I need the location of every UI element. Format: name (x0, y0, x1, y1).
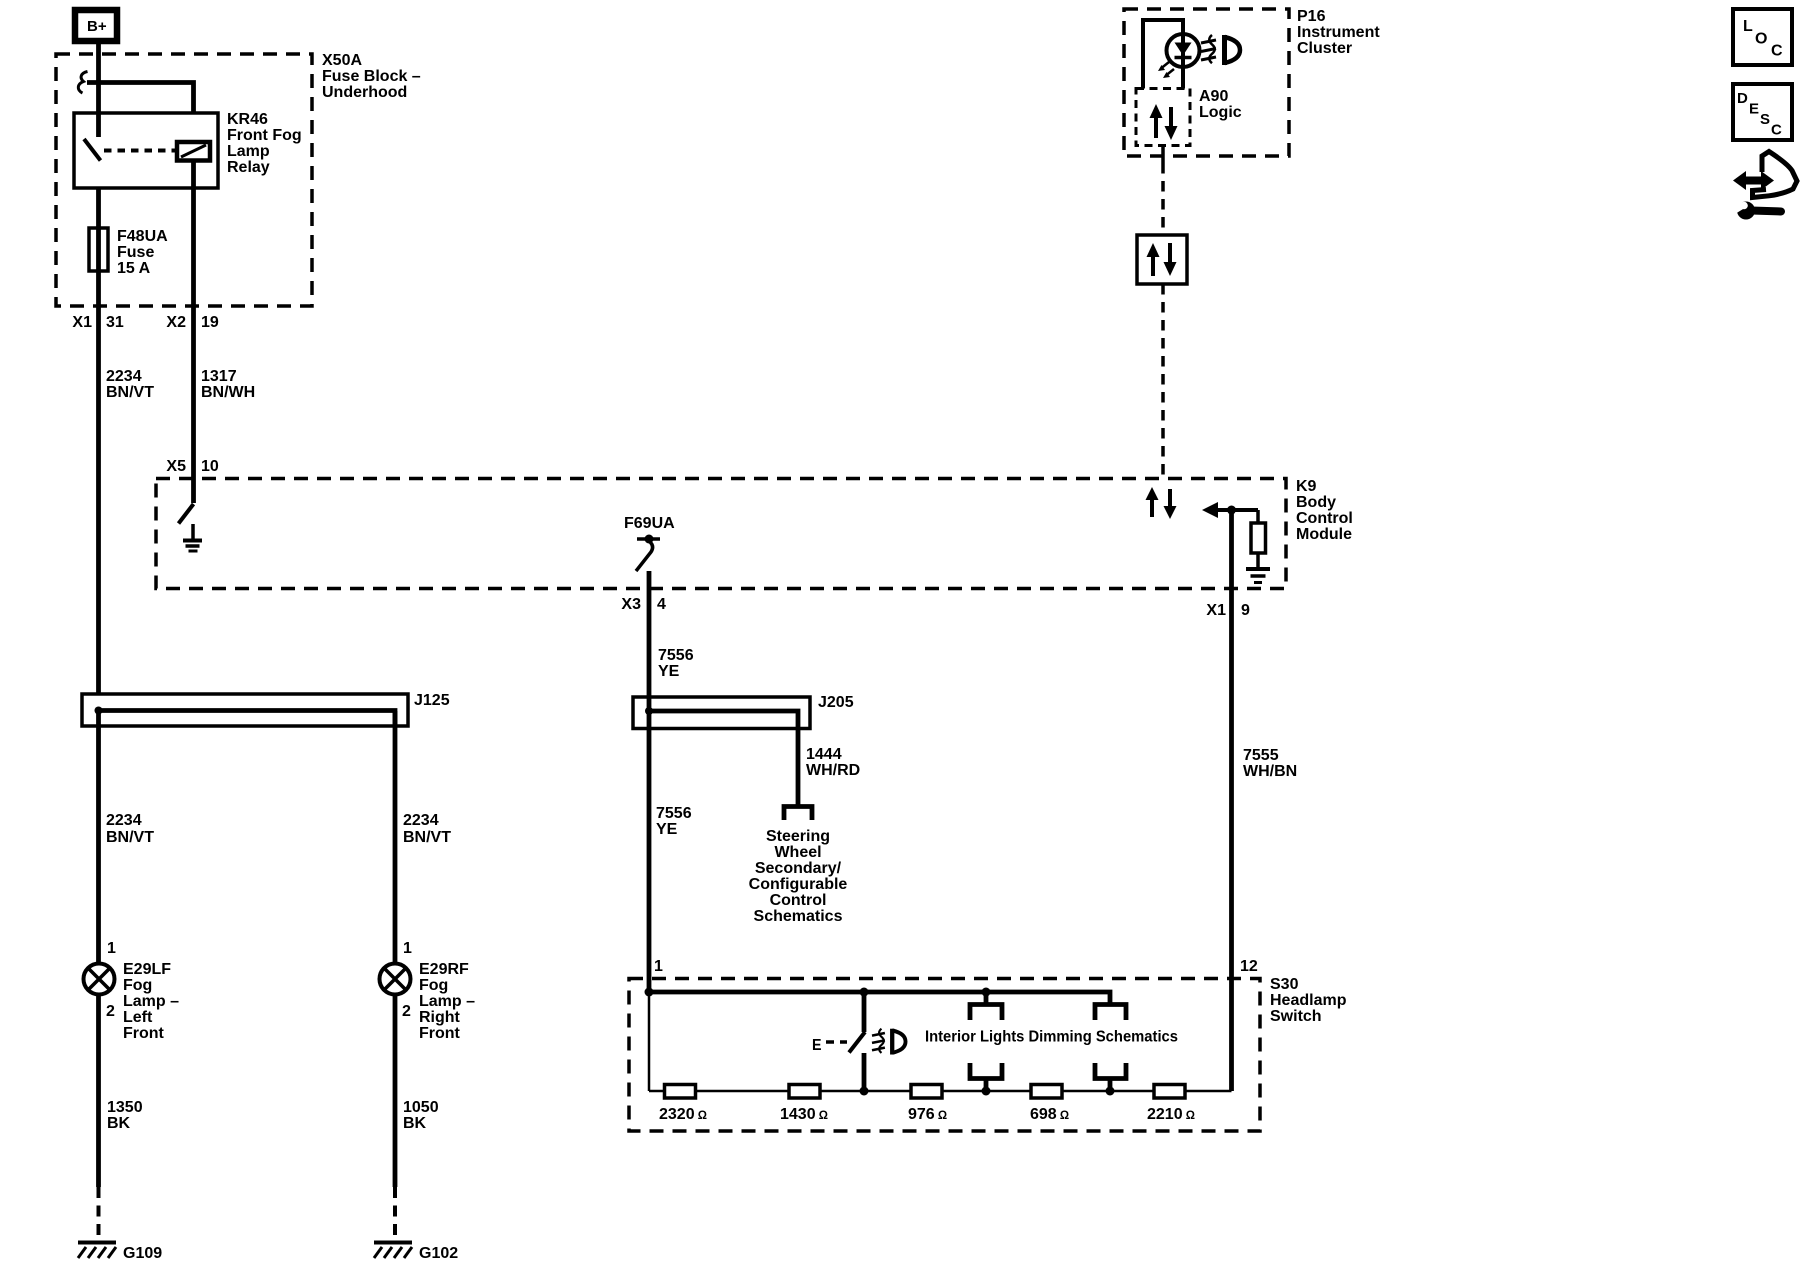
svg-text:Control: Control (770, 892, 827, 909)
wire label 1350 BK (107, 1099, 143, 1132)
wire label 1444 WH/RD (806, 746, 860, 779)
serial data gateway box (1137, 235, 1187, 284)
svg-text:Interior Lights Dimming Schema: Interior Lights Dimming Schematics (925, 1029, 1178, 1046)
svg-text:19: 19 (201, 314, 219, 331)
svg-text:Lamp –: Lamp – (123, 993, 179, 1010)
fog lamp switch stem (862, 992, 867, 1032)
svg-text:J125: J125 (414, 692, 450, 709)
label X50A Fuse Block Underhood (322, 52, 421, 101)
svg-text:1350: 1350 (107, 1099, 143, 1116)
svg-text:O: O (1755, 31, 1767, 48)
svg-text:Left: Left (123, 1009, 153, 1026)
svg-text:F48UA: F48UA (117, 228, 168, 245)
svg-text:S30: S30 (1270, 976, 1299, 993)
svg-text:BN/WH: BN/WH (201, 384, 255, 401)
svg-text:2234: 2234 (106, 368, 142, 385)
wire 1050 BK right lamp to ground (393, 994, 398, 1187)
pin label X3 4 (621, 596, 666, 613)
relay KR46 box (74, 113, 218, 188)
BCM input arrow from X1 9 (1202, 502, 1258, 518)
wire B+ down to relay switch (96, 44, 101, 137)
logic block A90 dashed box (1136, 89, 1190, 146)
svg-text:G109: G109 (123, 1245, 162, 1262)
svg-text:1: 1 (107, 940, 116, 957)
svg-text:15 A: 15 A (117, 260, 151, 277)
BCM internal ground right (1246, 569, 1270, 583)
svg-text:Underhood: Underhood (322, 84, 407, 101)
svg-text:2: 2 (402, 1003, 411, 1020)
wire 7555 WH/BN from X1 9 down to S30 pin 12 (1229, 510, 1234, 1091)
junction node at X1 9 (1227, 506, 1236, 515)
fuse F69UA symbol (624, 515, 675, 571)
label P16 Instrument Cluster (1297, 8, 1380, 57)
svg-text:BN/VT: BN/VT (106, 384, 154, 401)
wire label 7556 YE lower (656, 805, 692, 838)
svg-text:7556: 7556 (658, 647, 694, 664)
svg-text:D: D (1737, 90, 1748, 107)
svg-text:2234: 2234 (106, 812, 142, 829)
dashed link E to blade (826, 1040, 847, 1044)
svg-text:Lamp –: Lamp – (419, 993, 475, 1010)
svg-text:K9: K9 (1296, 478, 1317, 495)
off-page fork upper A (970, 988, 1002, 1021)
wire J125 to left fog lamp (96, 710, 101, 964)
wire 7556 YE from F69UA down to S30 pin 1 (647, 571, 652, 992)
svg-text:Schematics: Schematics (754, 908, 843, 925)
nav icon outline arrow (1753, 152, 1798, 198)
label KR46 Front Fog Lamp Relay (227, 111, 302, 176)
svg-text:S: S (1760, 111, 1770, 128)
svg-text:2: 2 (106, 1003, 115, 1020)
off-page connector fork to steering wheel schematics (784, 807, 812, 821)
label E29RF Fog Lamp Right Front (419, 961, 475, 1042)
wire label 7556 YE upper (658, 647, 694, 680)
svg-text:1050: 1050 (403, 1099, 439, 1116)
svg-text:Module: Module (1296, 526, 1352, 543)
svg-text:1317: 1317 (201, 368, 237, 385)
headlamp switch S30 dashed box (629, 979, 1260, 1132)
svg-text:Secondary/: Secondary/ (755, 860, 842, 877)
off-page fork lower B (1095, 1063, 1126, 1096)
wire relay coil down to X2 pin 19 (191, 160, 196, 503)
svg-text:E: E (1749, 101, 1759, 118)
svg-text:7556: 7556 (656, 805, 692, 822)
svg-text:J205: J205 (818, 694, 854, 711)
resistor 976 ohm (908, 1085, 947, 1124)
svg-text:Front: Front (419, 1025, 461, 1042)
nav icon wrench (1732, 196, 1781, 220)
off-page fork upper B (1095, 1005, 1126, 1021)
svg-text:A90: A90 (1199, 88, 1228, 105)
splice pack J205 (633, 697, 810, 729)
relay actuation dashed link (104, 149, 176, 153)
fog lamp switch blade (849, 1032, 865, 1053)
pin label X1 31 (72, 314, 123, 331)
svg-text:C: C (1771, 43, 1783, 60)
svg-text:Steering: Steering (766, 828, 830, 845)
relay switch blade (84, 139, 101, 161)
svg-text:Control: Control (1296, 510, 1353, 527)
pin label X5 10 (166, 458, 218, 475)
resistor 2320 ohm (659, 1085, 707, 1124)
wire A90 to serial data link (1161, 146, 1165, 164)
svg-text:4: 4 (657, 596, 666, 613)
svg-text:B+: B+ (87, 18, 107, 35)
svg-text:X1: X1 (72, 314, 92, 331)
S30 left return wire (648, 992, 651, 1091)
fog lamp icon S30 (872, 1029, 906, 1055)
body control module K9 dashed box (156, 479, 1286, 589)
svg-text:1: 1 (403, 940, 412, 957)
resistor 1430 ohm (780, 1085, 828, 1124)
svg-text:Relay: Relay (227, 159, 270, 176)
svg-text:WH/BN: WH/BN (1243, 763, 1297, 780)
svg-text:X1: X1 (1206, 602, 1226, 619)
battery feed B+ (75, 10, 117, 41)
svg-text:Configurable: Configurable (749, 876, 848, 893)
wire label 7555 WH/BN (1243, 747, 1297, 780)
svg-text:12: 12 (1240, 958, 1258, 975)
svg-text:YE: YE (658, 663, 680, 680)
BCM internal pull resistor (1251, 510, 1266, 567)
BCM internal switch blade at X5 (179, 504, 194, 524)
svg-text:E: E (812, 1037, 822, 1054)
connector clip symbol on B+ feed (78, 72, 87, 94)
fog lamp icon P16 (1201, 35, 1240, 65)
svg-text:E29LF: E29LF (123, 961, 171, 978)
resistor 2210 ohm (1147, 1085, 1195, 1124)
dashed serial data wire upper (1161, 163, 1165, 235)
wire label 2234 BN/VT left (106, 812, 154, 846)
svg-text:F69UA: F69UA (624, 515, 675, 532)
fog lamp E29RF (380, 964, 411, 995)
svg-text:10: 10 (201, 458, 219, 475)
wire J125 to right fog lamp (393, 711, 398, 964)
label F48UA Fuse 15 A (117, 228, 168, 277)
wire 1444 WH/RD from J205 (796, 728, 801, 805)
relay coil KR46 (177, 142, 210, 161)
svg-text:Instrument: Instrument (1297, 24, 1380, 41)
wire label 1317 BN/WH (201, 368, 255, 401)
fuse F48UA 15A (89, 228, 108, 271)
svg-text:BN/VT: BN/VT (106, 829, 154, 846)
reference text Steering Wheel Secondary Configurable Control Schematics (749, 828, 848, 925)
wire label 1050 BK (403, 1099, 439, 1132)
svg-text:Fog: Fog (123, 977, 152, 994)
svg-text:Fuse Block –: Fuse Block – (322, 68, 421, 85)
svg-text:Right: Right (419, 1009, 461, 1026)
svg-text:Logic: Logic (1199, 104, 1242, 121)
off-page fork lower A (970, 1063, 1002, 1096)
svg-text:Headlamp: Headlamp (1270, 992, 1347, 1009)
svg-text:Fog: Fog (419, 977, 448, 994)
svg-text:1444: 1444 (806, 746, 842, 763)
ground G102 (374, 1243, 412, 1259)
pin label X2 19 (166, 314, 218, 331)
svg-text:KR46: KR46 (227, 111, 268, 128)
svg-text:E29RF: E29RF (419, 961, 469, 978)
wire label 2234 BN/VT right (403, 812, 451, 846)
wire label 2234 BN/VT (106, 368, 154, 401)
svg-text:BN/VT: BN/VT (403, 829, 451, 846)
svg-text:YE: YE (656, 821, 678, 838)
svg-text:2234: 2234 (403, 812, 439, 829)
fog switch contact node (860, 988, 869, 997)
dashed serial data wire lower (1161, 284, 1165, 479)
dashed ground lead left (97, 1187, 101, 1242)
svg-text:Fuse: Fuse (117, 244, 154, 261)
BCM serial data arrows (1146, 487, 1177, 519)
svg-text:BK: BK (107, 1115, 131, 1132)
svg-text:1: 1 (654, 958, 663, 975)
indicator feed loop wire (1143, 20, 1183, 89)
svg-text:BK: BK (403, 1115, 427, 1132)
BCM internal ground (183, 524, 202, 551)
fog lamp E29LF (84, 964, 115, 995)
dashed ground lead right (393, 1187, 397, 1242)
node on ladder rail (860, 1087, 869, 1096)
wire relay switch down through fuse to X1 pin 31 (96, 188, 101, 694)
svg-text:7555: 7555 (1243, 747, 1279, 764)
S30 resistor ladder rail (649, 1090, 1232, 1093)
ground G109 (78, 1243, 116, 1259)
A90 serial data arrows (1150, 104, 1178, 140)
nav box DESC (1733, 84, 1792, 140)
resistor 698 ohm (1030, 1085, 1069, 1124)
svg-text:31: 31 (106, 314, 124, 331)
label S30 Headlamp Switch (1270, 976, 1347, 1025)
fog lamp switch lower contact (862, 1053, 867, 1091)
svg-text:X5: X5 (166, 458, 186, 475)
label A90 Logic (1199, 88, 1242, 121)
splice pack J125 (82, 694, 408, 726)
nav box LOC (1733, 9, 1792, 65)
nav icon double arrow (1733, 171, 1774, 190)
svg-text:C: C (1771, 122, 1782, 139)
wire 1350 BK left lamp to ground (96, 994, 101, 1187)
node rail left (645, 988, 654, 997)
pin label X1 9 (1206, 602, 1250, 619)
svg-text:Switch: Switch (1270, 1008, 1322, 1025)
svg-text:G102: G102 (419, 1245, 458, 1262)
svg-text:Wheel: Wheel (774, 844, 821, 861)
svg-text:Front Fog: Front Fog (227, 127, 302, 144)
svg-text:Body: Body (1296, 494, 1336, 511)
svg-text:WH/RD: WH/RD (806, 762, 860, 779)
svg-text:Cluster: Cluster (1297, 40, 1352, 57)
label K9 Body Control Module (1296, 478, 1353, 543)
instrument cluster P16 dashed box (1124, 9, 1289, 156)
svg-text:X2: X2 (166, 314, 186, 331)
label E29LF Fog Lamp Left Front (123, 961, 179, 1042)
svg-text:L: L (1743, 18, 1753, 35)
S30 supply rail (647, 992, 1111, 1003)
svg-text:9: 9 (1241, 602, 1250, 619)
fuse block X50A dashed box (56, 54, 312, 306)
svg-text:Lamp: Lamp (227, 143, 270, 160)
wire branch to relay coil (87, 83, 194, 114)
LED indicator (1158, 34, 1200, 78)
svg-text:P16: P16 (1297, 8, 1326, 25)
svg-text:X50A: X50A (322, 52, 362, 69)
svg-text:Front: Front (123, 1025, 165, 1042)
svg-text:X3: X3 (621, 596, 641, 613)
